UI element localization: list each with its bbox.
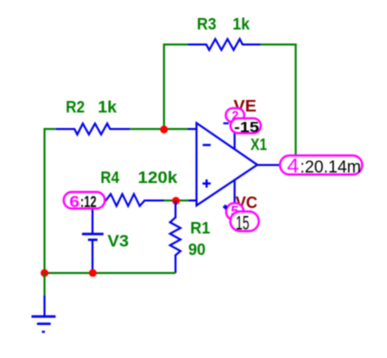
- label VC: [236, 193, 258, 212]
- label R1: [190, 219, 210, 238]
- svg-text:1k: 1k: [233, 15, 251, 34]
- svg-text:6: 6: [69, 194, 80, 211]
- value 90: [188, 240, 206, 259]
- label X1: [251, 135, 268, 154]
- wire R2 left + left branch down to bottom rail: [45, 129, 56, 273]
- svg-text:-15: -15: [234, 119, 259, 136]
- value 1k (R3): [233, 15, 251, 34]
- node junction (rail / V3): [89, 269, 97, 277]
- svg-text:R2: R2: [66, 97, 85, 116]
- node junction (rail / ground): [41, 269, 49, 277]
- value 120k: [138, 168, 178, 187]
- wire R4 to + input: [164, 200, 188, 202]
- wire stub - input: [188, 128, 197, 130]
- op-amp X1: [197, 123, 258, 206]
- svg-text:R4: R4: [101, 168, 120, 187]
- wire stub + input: [188, 200, 196, 202]
- svg-text:R3: R3: [197, 15, 217, 34]
- voltage source V3: [82, 201, 104, 274]
- wire top-left vertical (feedback loop left): [164, 45, 188, 130]
- node bubble 2 (behind -15): [226, 108, 244, 123]
- bias bubble 4:20.14m (output node): [280, 155, 362, 177]
- svg-text:R1: R1: [190, 219, 210, 238]
- svg-text:V3: V3: [108, 231, 129, 250]
- ground: [32, 296, 56, 332]
- wire ground drop: [44, 273, 46, 296]
- pin marker plus (V+ supply): [223, 205, 228, 210]
- svg-text:90: 90: [188, 240, 206, 259]
- node junction (R4 / R1 / +input): [172, 197, 180, 205]
- node bubble 5 (behind 15): [226, 203, 243, 220]
- pin marker minus (V- supply): [223, 122, 229, 124]
- svg-text::12: :12: [80, 194, 96, 211]
- bias bubble 6:12 (V3 node): [64, 192, 105, 211]
- svg-text:15: 15: [236, 213, 250, 234]
- resistor R1: [170, 201, 181, 273]
- bias bubble -15 (VE): [231, 118, 261, 136]
- value 1k (R2): [98, 97, 118, 116]
- label VE: [234, 96, 257, 115]
- wire top-right (feedback loop right, down to output node): [261, 45, 297, 166]
- svg-text:1k: 1k: [98, 97, 118, 116]
- resistor R3: [188, 39, 261, 50]
- label R3: [197, 15, 217, 34]
- wire output lead: [257, 164, 285, 166]
- pin V+ supply (bottom): [234, 181, 236, 212]
- wire bottom rail: [45, 272, 176, 274]
- svg-text:X1: X1: [251, 135, 268, 154]
- svg-text:120k: 120k: [138, 168, 178, 187]
- svg-text:4: 4: [287, 155, 299, 177]
- node junction (R2 / R3 / -input): [160, 126, 168, 134]
- bias bubble 15 (VC): [230, 212, 258, 235]
- resistor R2: [56, 124, 130, 135]
- label R4: [101, 168, 120, 187]
- svg-text::20.14m: :20.14m: [300, 156, 361, 176]
- label R2: [66, 97, 85, 116]
- label V3: [108, 231, 129, 250]
- pin V- supply (top): [234, 120, 236, 150]
- resistor R4: [95, 194, 164, 206]
- wire R2 output to inverting input: [130, 128, 188, 130]
